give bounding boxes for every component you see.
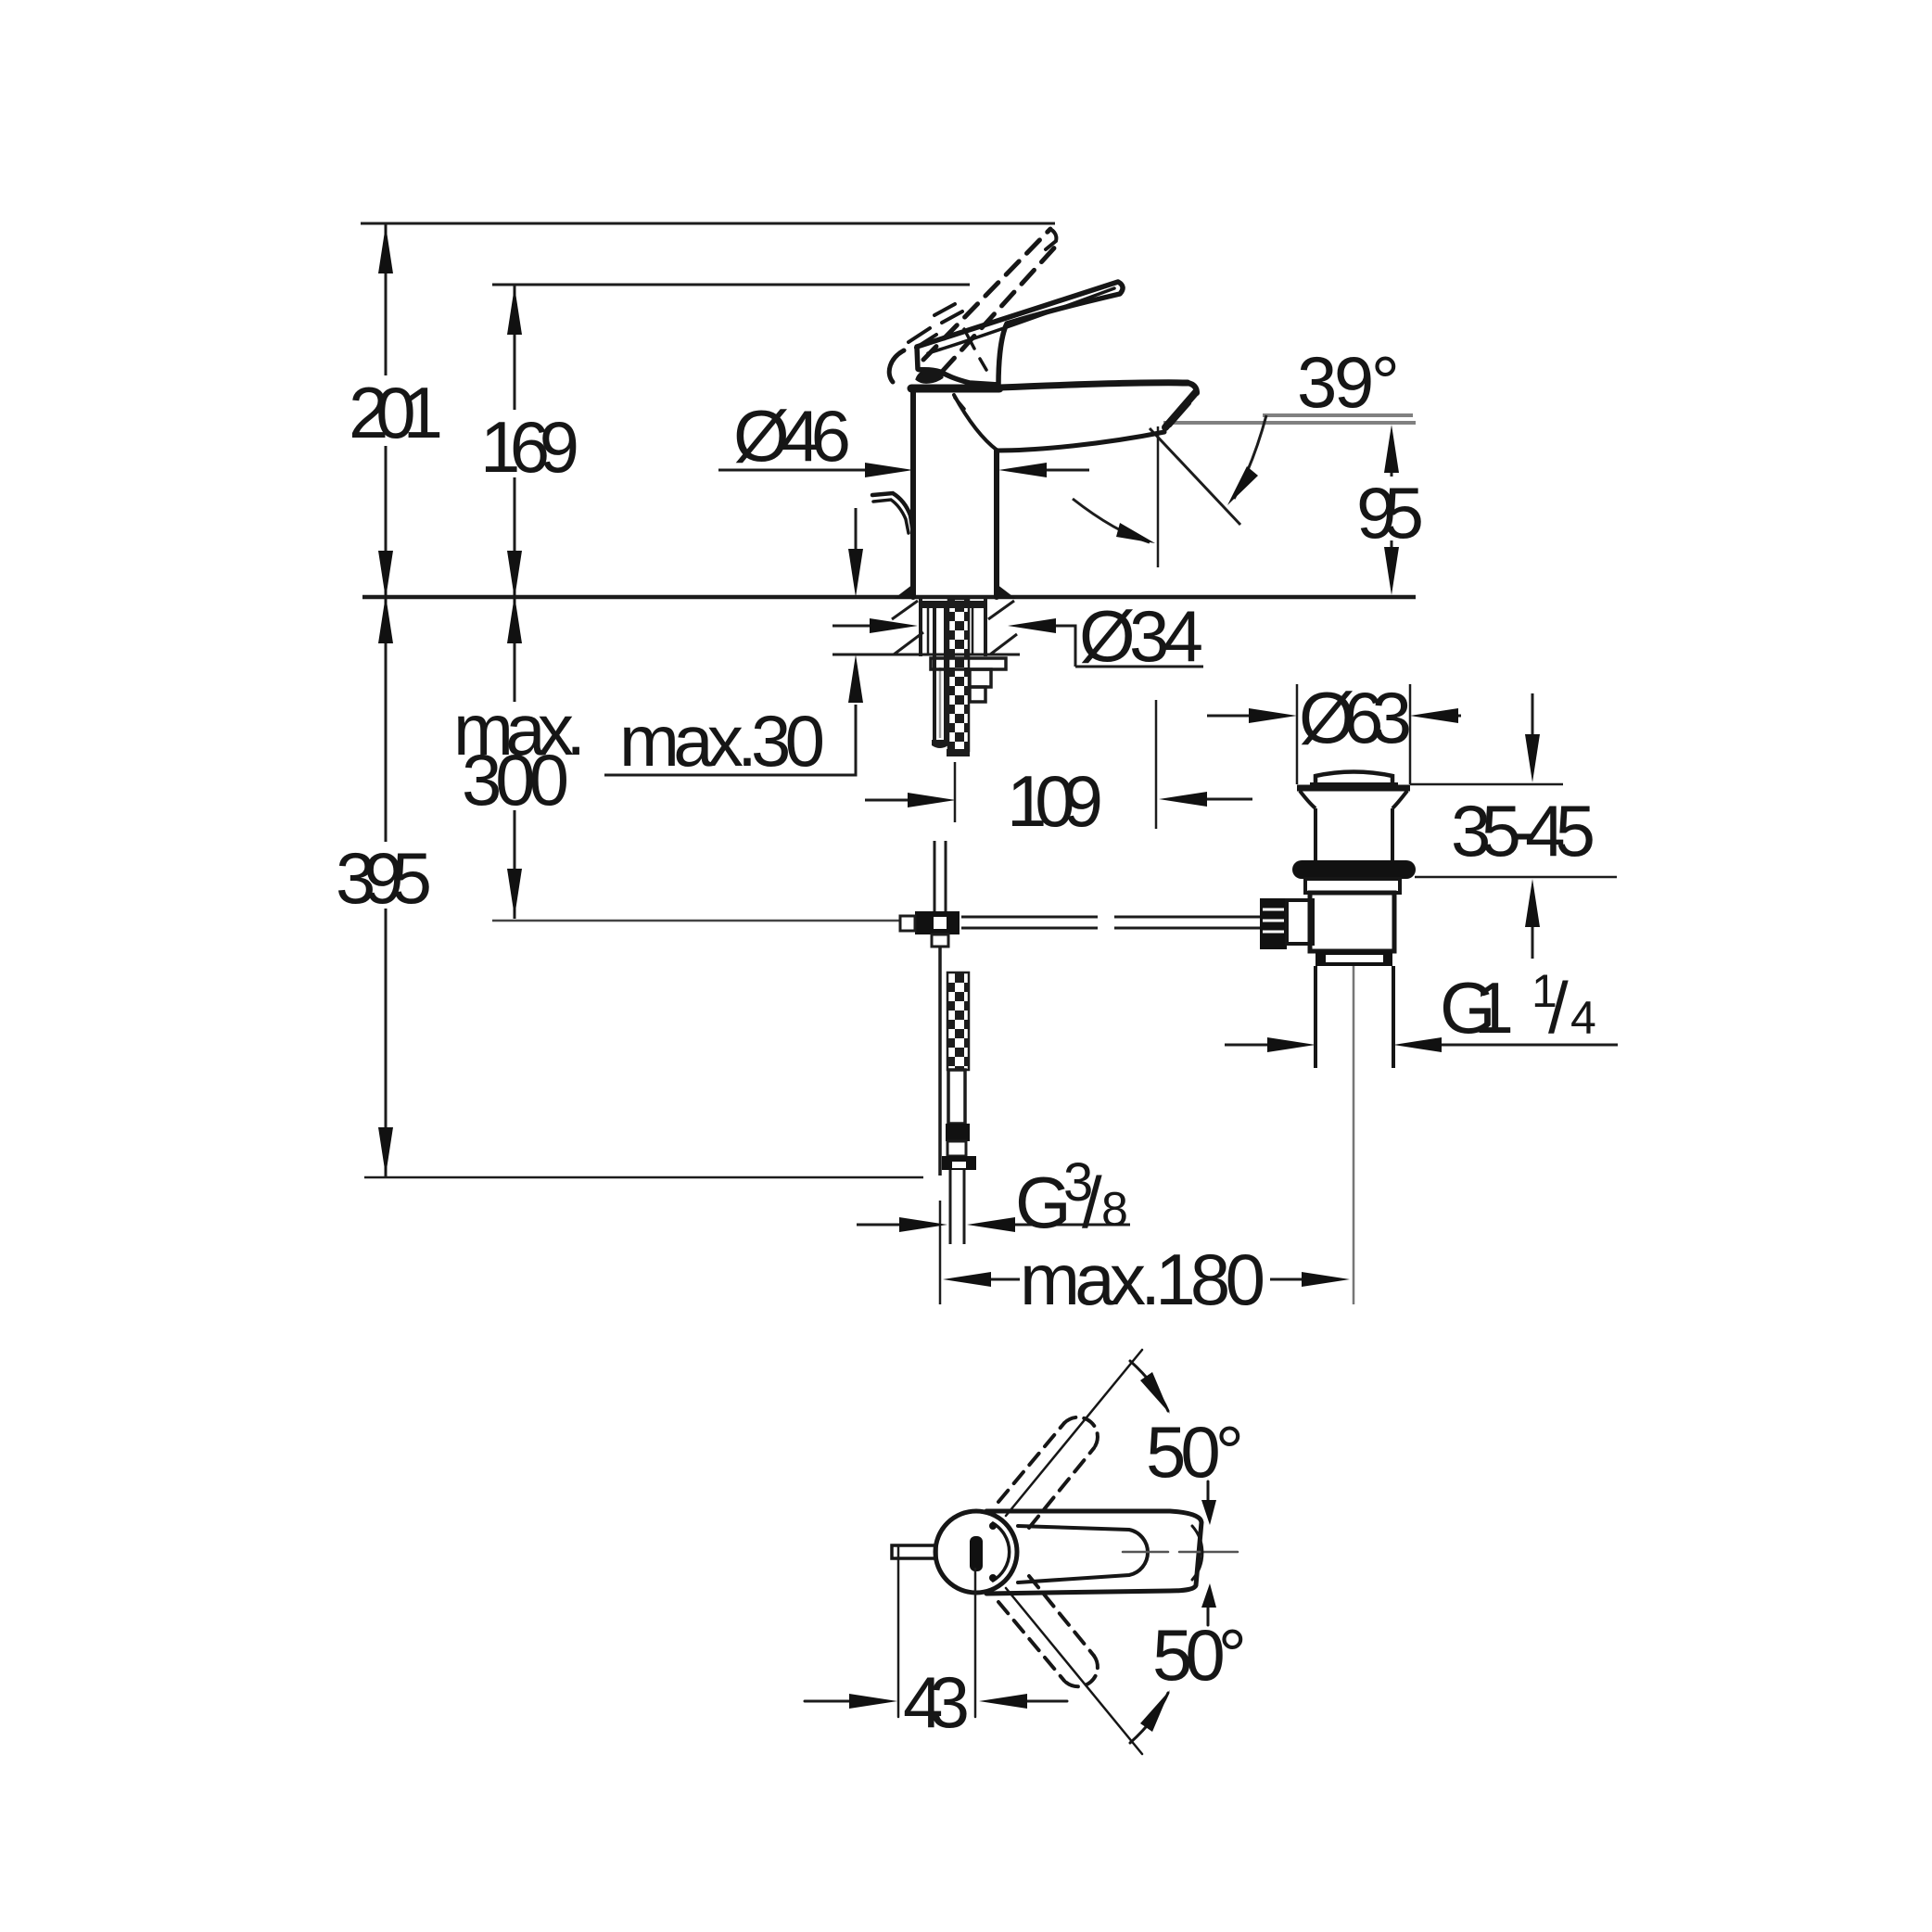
wire extension line 109 right (1155, 700, 1158, 829)
node cross collar (900, 916, 915, 931)
wire lower leader arc to vertical (1073, 499, 1150, 542)
component threaded stud (948, 599, 969, 751)
wire lever recess plan (1018, 1526, 1148, 1582)
wire dash fragment g (955, 398, 964, 409)
wire dimension line G3/8 right (1011, 1224, 1130, 1227)
wire spout bottom edge (998, 432, 1164, 451)
wire 39deg angled line (1150, 428, 1240, 525)
node arrow 95 up (1384, 425, 1399, 473)
wire counter hatch left b (894, 632, 923, 655)
wire shank wall right outer (984, 599, 987, 656)
svg-text:/: / (1548, 967, 1569, 1049)
component lever handle side view (917, 282, 1123, 385)
wire plan centerline (1123, 1551, 1168, 1554)
wire counter hatch right a (988, 601, 1014, 619)
svg-text:395: 395 (336, 837, 432, 919)
wire 50deg axis lower (1006, 1588, 1142, 1754)
component knob connector (1287, 900, 1313, 944)
wire top reference line 201 (361, 222, 1055, 225)
wire pop-up rod upper (954, 762, 957, 822)
svg-text:50°: 50° (1146, 1411, 1244, 1493)
wire dimension line D34 left (833, 625, 873, 628)
svg-text:201: 201 (349, 372, 443, 453)
wire dimension line G3/8 left (857, 1224, 903, 1227)
wire horizontal rod lower wall a (961, 927, 1098, 930)
wire hose upper centerline (939, 667, 942, 738)
wire knurl slit b (1263, 920, 1284, 922)
node 50deg upper tick arrow (1201, 1500, 1216, 1525)
wire extension line max180 left (939, 1201, 942, 1304)
node arrow max300 bottom down (507, 869, 522, 917)
wire dimension line 109 left (865, 799, 911, 802)
svg-text:109: 109 (1007, 760, 1103, 842)
node hose wide nut inner (952, 1162, 966, 1168)
wire drain centerline (1353, 965, 1355, 1304)
wire dash fragment c (909, 328, 930, 342)
node cross foot (932, 934, 948, 947)
component drain valve body (1310, 893, 1394, 951)
component drain upper ring (1305, 879, 1400, 893)
wire 50deg upper arc (1130, 1361, 1168, 1411)
node arrow 201 bottom down (378, 551, 393, 599)
wire shank wall left outer (919, 599, 922, 656)
node lever dot upper (989, 1522, 997, 1530)
node arrow D46 left (865, 463, 913, 477)
wire pop-up rod wall left (934, 841, 936, 911)
wire hose upper wall right (944, 608, 947, 742)
node arrow lower leader (1116, 523, 1155, 543)
svg-text:Ø63: Ø63 (1299, 677, 1412, 758)
svg-text:Ø34: Ø34 (1079, 595, 1203, 677)
wire dimension line G1-1/4 right (1438, 1044, 1618, 1047)
wire faucet body top face (911, 385, 999, 393)
wire 35-45 up arrow line (1532, 923, 1534, 959)
component hose connector box (947, 1141, 966, 1156)
svg-text:/: / (1082, 1162, 1102, 1243)
wire dimension line D63 right tail (1455, 715, 1461, 718)
node text mask max300 (448, 702, 591, 810)
wire lever top inner edge (928, 288, 1114, 353)
wire 50deg lower arc (1130, 1693, 1168, 1743)
wire lever blade outline plan (986, 1511, 1201, 1594)
wire 39deg leader arc (1234, 415, 1266, 499)
node faucet foot flare right (994, 584, 1016, 599)
wire countertop line (362, 595, 1416, 600)
node arrow max30 down (848, 549, 863, 597)
node arrow G1-1/4 right (1393, 1037, 1442, 1052)
node arrow max180 left (943, 1272, 991, 1287)
wire dashed lever up edge a (998, 1423, 1064, 1502)
wire lever cap inner arc (993, 1523, 1010, 1581)
node drain bottom cap (1316, 951, 1392, 966)
node arrow 109 left (908, 793, 956, 807)
wire 50deg lower tick (1207, 1601, 1210, 1625)
wire dimension line 109 right tail (1203, 798, 1252, 801)
wire hose pipe wall right (963, 1170, 966, 1244)
node lever slot (970, 1536, 983, 1571)
node arrow D34 right (1008, 618, 1056, 633)
wire extension line D63 left (1296, 684, 1299, 784)
svg-text:50°: 50° (1152, 1614, 1247, 1696)
node drain knurled knob (1260, 898, 1287, 949)
svg-text:43: 43 (903, 1661, 970, 1743)
wire hose upper wall left (933, 608, 936, 742)
node hose upper end cap (932, 740, 948, 748)
node arrow 169 bottom down (507, 551, 522, 599)
component lift rod knob plan (892, 1545, 936, 1558)
wire faucet body right edge (994, 451, 999, 597)
wire extension line 43 right (974, 1569, 977, 1717)
node faucet base gasket (921, 601, 985, 608)
svg-text:39°: 39° (1297, 341, 1400, 423)
node arrow 43 left (849, 1694, 897, 1709)
wire max30 leader underline (604, 705, 856, 775)
node 50deg lower tick arrow (1201, 1583, 1216, 1608)
node arrow 395 top up (378, 595, 393, 643)
wire lever end inner arc plan (1192, 1526, 1202, 1580)
wire tailpipe wall left (1314, 966, 1317, 1068)
node arrow 39deg leader (1227, 466, 1258, 505)
wire dimension line G1-1/4 left (1225, 1044, 1271, 1047)
wire extension line 43 left (897, 1546, 900, 1717)
svg-text:8: 8 (1101, 1183, 1128, 1237)
node hose wide nut (942, 1156, 976, 1170)
wire 95 up arrow stub (1391, 468, 1393, 477)
wire horizontal rod lower wall b (1114, 927, 1261, 930)
wire drain body wall right (1391, 808, 1394, 861)
wire dashed open lever bottom edge (942, 242, 1060, 372)
wire lift-rod knob inner (873, 500, 909, 533)
wire knurl slit a (1263, 909, 1284, 911)
node drain o-ring seal (1292, 860, 1416, 879)
node text mask 201 (343, 375, 447, 446)
wire dimension line 43 left tail (805, 1700, 849, 1703)
wire dash fragment f (980, 359, 986, 370)
svg-text:35-45: 35-45 (1451, 790, 1595, 871)
svg-text:95: 95 (1356, 472, 1424, 553)
wire lift-rod knob outer (872, 493, 913, 533)
node arrow 35-45 up (1525, 879, 1540, 927)
node arrow 395 bottom down (378, 1127, 393, 1176)
wire dashed lever up edge b (1029, 1448, 1094, 1528)
wire max30 upper arrow tail (855, 508, 858, 549)
wire vertical dimension line 201-395 (385, 223, 388, 1177)
node cross block hole (934, 917, 947, 929)
wire dashed open lever tip hook (1046, 229, 1056, 249)
wire dimension line D46 right (1043, 469, 1089, 472)
wire dimension line max180 right tail (1270, 1278, 1305, 1281)
svg-text:169: 169 (480, 406, 579, 488)
node arrow max300 top up (507, 595, 522, 643)
wire dimension line D34 right with leader (1055, 626, 1203, 667)
svg-text:G1: G1 (1440, 967, 1514, 1049)
node arrow D63 right (1410, 708, 1458, 723)
node text mask 395 (330, 842, 438, 909)
wire extension line D63 right (1409, 684, 1412, 784)
node arrow D63 left (1249, 708, 1297, 723)
node lever beak (917, 371, 942, 383)
wire drain flange plate (1297, 785, 1410, 792)
wire dimension line D46 left (718, 469, 869, 472)
wire pop-up rod hook (889, 350, 904, 382)
wire dashed lever up end cap (1064, 1417, 1098, 1448)
wire 39deg upper reference line (1263, 413, 1413, 417)
wire dimension line D63 left tail (1207, 715, 1252, 718)
node arrow max30 up (848, 655, 863, 703)
wire drain cap top (1316, 772, 1392, 786)
svg-text:Ø46: Ø46 (733, 395, 851, 477)
wire 50deg axis upper (1006, 1350, 1142, 1516)
component mounting nut step1 (970, 669, 991, 687)
node arrow 95 down (1384, 547, 1399, 595)
wire faucet body left edge (910, 391, 916, 597)
wire hose pipe wall left (949, 1170, 952, 1244)
node arrow 201 top up (378, 225, 393, 273)
wire 50deg upper tick (1207, 1481, 1210, 1506)
svg-text:max.180: max.180 (1020, 1239, 1265, 1320)
component hose plain tube (948, 1070, 965, 1124)
node arrow 109 right (1159, 792, 1207, 807)
wire dash fragment b (942, 311, 962, 323)
component flexible hose braided (947, 972, 969, 1070)
wire aerator inner edge (1170, 403, 1189, 426)
node 50deg lower arc arrow (1140, 1690, 1170, 1732)
wire 35-45 upper reference (1410, 783, 1563, 786)
wire dash fragment a (934, 304, 955, 315)
node cross block (915, 911, 960, 934)
svg-text:300: 300 (462, 739, 569, 820)
node arrow D34 left (870, 618, 918, 633)
wire tailpipe wall right (1392, 966, 1395, 1068)
wire drain flange taper right (1392, 791, 1407, 808)
wire spout tip corner (1188, 383, 1197, 393)
wire drain flange taper left (1300, 791, 1316, 808)
wire pop-up rod wall right (945, 841, 947, 911)
node lever dot lower (989, 1574, 997, 1582)
component mounting nut step2 (970, 687, 985, 702)
node arrow 169 top up (507, 286, 522, 335)
wire vertical dimension line 169-max300 (514, 285, 516, 919)
wire dashed lever down end cap (1064, 1656, 1098, 1686)
node drain bottom cap inner (1326, 955, 1383, 962)
wire shank inner line b (972, 608, 974, 655)
node arrow G3/8 left (899, 1217, 947, 1232)
svg-text:max.30: max.30 (619, 700, 825, 782)
wire 95 down arrow stub (1391, 540, 1393, 549)
svg-text:4: 4 (1570, 992, 1596, 1044)
wire aerator face (1165, 392, 1196, 427)
wire body-spout transition curve (954, 395, 998, 451)
wire horizontal rod upper wall b (1114, 916, 1261, 919)
node arrow G1-1/4 left (1267, 1037, 1316, 1052)
wire counter hatch left a (892, 601, 918, 619)
wire dashed lever down edge b (1029, 1576, 1094, 1656)
wire pop-up rod lower (938, 947, 942, 1176)
wire dash fragment d (916, 335, 936, 348)
wire spout tip reference line (1163, 421, 1416, 425)
node threaded stud end cap (947, 749, 970, 756)
component mounting nut plate (931, 658, 1006, 669)
wire countertop underside (833, 654, 1020, 656)
wire max300 bottom reference / rod line (492, 920, 900, 922)
wire knurl slit c (1263, 931, 1284, 934)
wire shank inner line a (927, 608, 930, 655)
node arrow 43 right (979, 1694, 1027, 1709)
wire bottom reference line 395 (364, 1176, 923, 1179)
node hose small nut (946, 1124, 970, 1141)
wire drain body wall left (1314, 808, 1317, 861)
node 50deg upper arc arrow (1140, 1372, 1170, 1414)
wire dimension line max180 left tail (983, 1278, 1020, 1281)
wire spout top edge (999, 383, 1188, 388)
node lever cap circle (935, 1511, 1017, 1593)
node arrow G3/8 right (967, 1217, 1015, 1232)
wire reference line 169 (492, 284, 970, 286)
node faucet foot flare left (894, 584, 916, 599)
node arrow 35-45 down (1525, 734, 1540, 782)
wire 35-45 down arrow line (1532, 693, 1534, 738)
wire dashed lever down edge a (998, 1602, 1064, 1681)
wire dimension line 43 right tail (1027, 1700, 1067, 1703)
wire spout tip vertical extension (1157, 426, 1160, 567)
wire dash fragment e (964, 329, 974, 349)
wire 35-45 lower reference (1415, 876, 1617, 879)
node text mask 169 (475, 410, 586, 477)
wire counter hatch right b (990, 634, 1017, 655)
wire dashed open lever top edge (923, 229, 1050, 360)
node arrow max180 right (1302, 1272, 1350, 1287)
wire horizontal rod upper wall a (961, 916, 1098, 919)
wire drain cap base (1310, 782, 1398, 786)
node arrow D46 right (998, 463, 1047, 477)
